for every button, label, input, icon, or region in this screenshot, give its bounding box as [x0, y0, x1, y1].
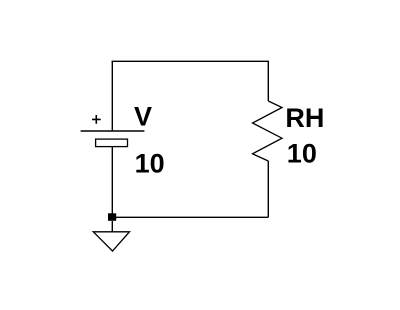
svg-text:V: V: [134, 102, 152, 132]
ground: [93, 232, 129, 251]
svg-text:10: 10: [135, 148, 165, 178]
wire left lower: [111, 147, 113, 218]
wire left upper: [111, 61, 113, 131]
wire right lower: [267, 161, 269, 217]
battery V1 positive plate: [81, 130, 145, 132]
wire top: [112, 60, 269, 62]
resistor RH: [253, 101, 283, 161]
node junction: [108, 213, 116, 221]
battery V1 negative plate: [96, 139, 128, 147]
wire right upper: [267, 61, 269, 101]
wire bottom: [112, 216, 268, 218]
svg-text:RH: RH: [285, 103, 324, 133]
polarity mark +: [92, 115, 101, 124]
svg-text:10: 10: [287, 138, 317, 168]
wire ground stub: [111, 221, 113, 232]
